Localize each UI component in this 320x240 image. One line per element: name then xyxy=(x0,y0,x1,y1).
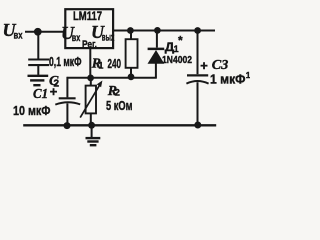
svg-text:С1: С1 xyxy=(33,87,48,102)
svg-text:вх: вх xyxy=(72,32,81,44)
svg-text:вых: вых xyxy=(102,31,115,43)
svg-text:1N4002: 1N4002 xyxy=(162,54,192,66)
svg-text:Рег.: Рег. xyxy=(82,38,97,50)
svg-text:5 кОм: 5 кОм xyxy=(106,98,133,113)
svg-text:+: + xyxy=(50,84,58,99)
svg-text:1: 1 xyxy=(246,70,250,80)
svg-text:10 мкФ: 10 мкФ xyxy=(13,103,51,118)
svg-text:вх: вх xyxy=(14,29,23,41)
svg-text:240: 240 xyxy=(108,56,122,71)
svg-text:1: 1 xyxy=(98,60,103,70)
svg-text:0,1 мкФ: 0,1 мкФ xyxy=(49,55,82,69)
svg-text:+: + xyxy=(200,58,208,73)
svg-text:1 мкФ: 1 мкФ xyxy=(210,72,246,87)
svg-text:*: * xyxy=(178,34,183,48)
